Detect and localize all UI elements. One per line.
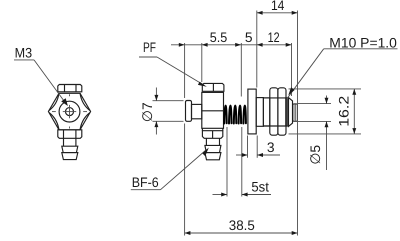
arrow 5.5 left: [202, 43, 208, 47]
svg-text:5.5: 5.5: [210, 30, 228, 45]
left barb cap: [186, 101, 192, 122]
arrow at 184.6 (outside): [179, 43, 185, 47]
dimension 3: [236, 154, 280, 156]
svg-text:M3: M3: [15, 45, 33, 60]
dimension phi7: [153, 88, 184, 135]
bolt circle (front): [59, 101, 80, 122]
svg-text:16.2: 16.2: [336, 96, 351, 127]
svg-text:38.5: 38.5: [229, 218, 255, 233]
spacer: [256, 98, 263, 127]
leader arrow M3: [61, 98, 68, 106]
pad: [293, 104, 297, 121]
dimension 5st: [213, 194, 272, 196]
arrow 12 right: [286, 43, 292, 47]
svg-text:BF-6: BF-6: [132, 175, 159, 190]
svg-text:∅7: ∅7: [140, 102, 155, 122]
bottom barb ridge 1 (side): [205, 145, 221, 152]
flange plate: [248, 89, 256, 134]
spring: [224, 106, 246, 124]
hex nut block: [263, 88, 287, 135]
collar below hex (front): [58, 130, 82, 139]
barb neck (front): [64, 138, 76, 146]
chain dimension line: [171, 44, 292, 46]
main body: [202, 92, 224, 128]
body mid line: [202, 110, 224, 112]
bottom barb neck (side): [206, 138, 219, 145]
arrow 12 left: [257, 43, 263, 47]
left barb neck: [192, 104, 202, 118]
leader M3: [14, 60, 65, 102]
hex chamfer arcs: [49, 93, 90, 130]
arrow 5.5 right: [235, 43, 241, 47]
dimension 14: [257, 12, 298, 14]
bottom barb ridge 2 (side): [205, 153, 221, 160]
extension lines vertical: [185, 11, 298, 236]
svg-text:5: 5: [245, 30, 253, 45]
svg-text:14: 14: [271, 0, 285, 13]
svg-text:∅5: ∅5: [308, 145, 323, 165]
dimension 16.2: [289, 89, 362, 134]
svg-text:5st: 5st: [251, 180, 269, 195]
dimension 38.5: [185, 232, 298, 234]
M3 thread hole: [66, 108, 74, 116]
centerlines of hole: [52, 94, 87, 128]
hose barb ridge 1 (front): [62, 146, 78, 152]
top port (front view): [58, 85, 82, 92]
hex nut body (front): [48, 93, 90, 130]
top port (side): [202, 83, 224, 91]
svg-text:PF: PF: [143, 40, 156, 55]
svg-text:3: 3: [267, 140, 275, 155]
svg-text:M10 P=1.0: M10 P=1.0: [329, 35, 397, 50]
pad lip: [289, 98, 293, 127]
dimension phi5: [298, 96, 331, 171]
bottom collar (side): [202, 128, 222, 138]
svg-text:12: 12: [268, 30, 280, 45]
hose barb ridge 2 (front): [62, 153, 78, 160]
